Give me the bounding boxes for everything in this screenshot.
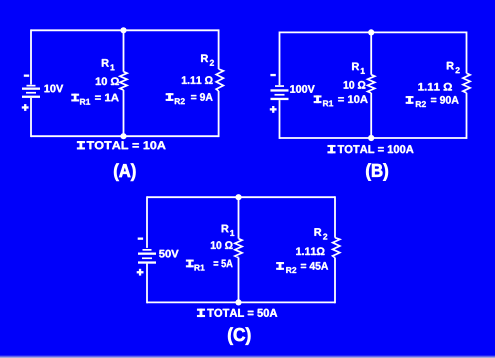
value label 10 ohms (A) (96, 77, 119, 85)
battery BT2 (B) plus sign (270, 106, 277, 113)
junction node top of middle branch (C) (235, 194, 241, 200)
resistor R1 zigzag (C) (235, 239, 242, 258)
resistor R2 zigzag (C) (333, 238, 340, 258)
circuit B right wire lower segment (from R2) (466, 93, 468, 139)
battery BT3 (C) plates (138, 249, 156, 264)
resistor R1 zigzag (B) (368, 75, 375, 93)
circuit A loop: bottom wire (31, 135, 219, 137)
resistor R1 zigzag (A) (120, 72, 127, 90)
total current label I TOTAL = 50A (C) (197, 309, 277, 317)
voltage label 10V (45, 85, 64, 93)
current label I_R2 = 90A (B) (406, 96, 459, 107)
circuit A left wire upper segment (to battery) (30, 29, 32, 84)
circuit C left wire lower segment (from battery) (146, 264, 148, 304)
battery BT1 (A) plus sign (22, 104, 29, 111)
value label 1.11 ohms (C) (296, 247, 324, 255)
total current label I TOTAL = 100A (B) (328, 145, 414, 153)
label R1 (A) (102, 59, 115, 70)
battery BT1 (A) plates (22, 85, 40, 98)
circuit C middle branch lower wire (from R1) (238, 258, 240, 303)
junction node top of middle branch (A) (120, 27, 126, 33)
label R2 (C) (315, 228, 328, 239)
battery BT1 (A) minus sign (24, 75, 29, 77)
label R1 (C) (222, 225, 235, 236)
circuit B left wire lower segment (from battery) (279, 100, 281, 139)
battery BT2 (B) plates (271, 85, 289, 100)
label R1 (B) (352, 63, 365, 74)
value label 10 ohms (C) (211, 241, 233, 249)
circuit A middle branch upper wire (to R1) (123, 30, 125, 71)
junction node bottom of middle branch (B) (368, 135, 374, 141)
battery BT2 (B) minus sign (270, 74, 275, 76)
label R2 (A) (201, 55, 214, 66)
battery BT3 (C) minus sign (138, 238, 143, 240)
circuit A left wire lower segment (from battery) (30, 98, 32, 137)
current label I_R1 = 10A (B) (314, 95, 368, 106)
bottom edge highlight (0, 355, 495, 358)
current label I_R1 = 1A (A) (72, 94, 119, 105)
circuit C left wire upper segment (to battery) (146, 196, 148, 248)
resistor R2 zigzag (A) (216, 69, 223, 91)
circuit C middle branch upper wire (to R1) (238, 197, 240, 238)
total current label I TOTAL = 10A (A) (77, 141, 166, 149)
value label 1.11 ohms (A) (182, 76, 213, 84)
current label I_R2 = 9A (A) (166, 93, 213, 104)
circuit A middle branch lower wire (from R1) (123, 90, 125, 136)
circuit A right wire lower segment (from R2) (218, 91, 220, 137)
current label I_R1 = 5A (C) (186, 260, 233, 271)
caption (A) (114, 164, 135, 181)
circuit B loop: bottom wire (280, 137, 467, 139)
caption (C) (228, 327, 250, 344)
circuit C loop: bottom wire (147, 301, 335, 303)
circuit C right wire lower segment (from R2) (334, 258, 336, 304)
current label I_R2 = 45A (C) (276, 262, 328, 273)
value label 10 ohms (B) (344, 81, 366, 89)
resistor R2 zigzag (B) (463, 73, 470, 93)
circuit B left wire upper segment (to battery) (279, 32, 281, 86)
circuit B middle branch upper wire (to R1) (370, 32, 372, 74)
label R2 (B) (447, 62, 460, 73)
battery BT3 (C) plus sign (137, 269, 144, 276)
junction node bottom of middle branch (A) (120, 133, 126, 139)
junction node top of middle branch (B) (368, 29, 374, 35)
caption (B) (366, 163, 388, 180)
circuit B middle branch lower wire (from R1) (370, 93, 372, 138)
junction node bottom of middle branch (C) (235, 299, 241, 305)
circuit C right wire upper segment (to R2) (334, 196, 336, 237)
circuit B loop: top wire (280, 31, 467, 33)
circuit C loop: top wire (147, 196, 335, 198)
circuit A loop: top wire (31, 29, 219, 31)
value label 1.11 ohms (B) (418, 83, 452, 91)
circuit B right wire upper segment (to R2) (466, 32, 468, 74)
voltage label 100V (290, 85, 314, 93)
circuit A right wire upper segment (to R2) (218, 29, 220, 69)
voltage label 50V (159, 250, 179, 258)
